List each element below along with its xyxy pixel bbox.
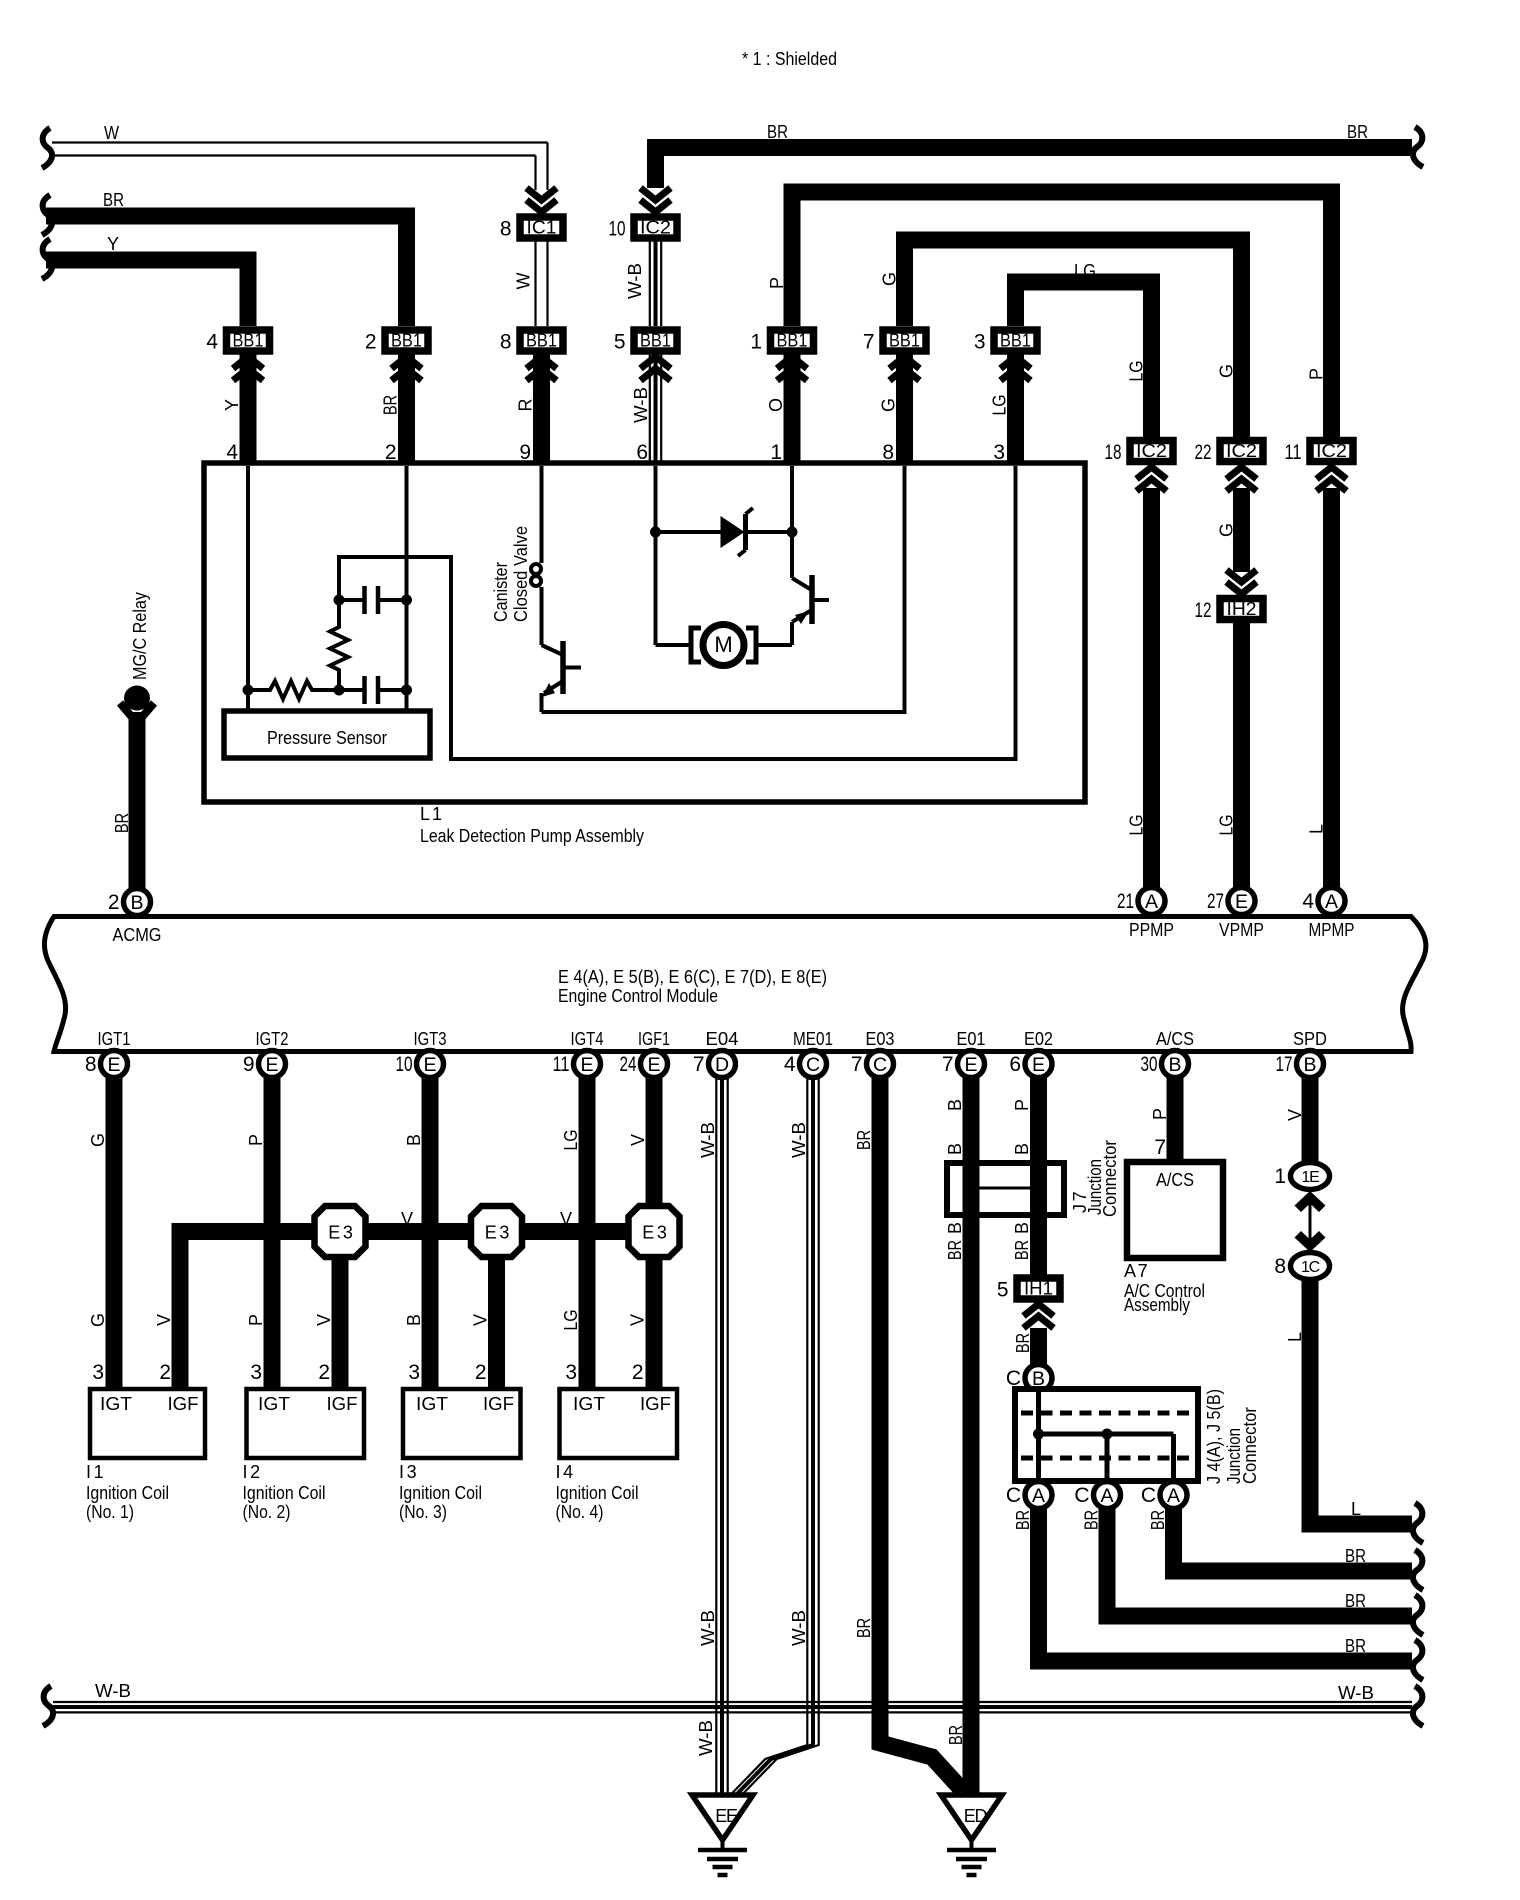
svg-text:Pressure Sensor: Pressure Sensor [267,728,387,748]
svg-text:V: V [401,1209,413,1229]
wire BR from right edge to IC2 pin 10 [1413,127,1423,167]
svg-text:7: 7 [942,1053,954,1076]
svg-text:E03: E03 [866,1029,895,1049]
svg-text:IGF1: IGF1 [638,1029,670,1049]
svg-text:LG: LG [1074,261,1096,281]
svg-text:M: M [714,632,732,657]
wire V from ECM SPD to connector 1E [1302,1077,1319,1162]
connector circle C A 2 [1094,1482,1121,1509]
svg-text:E01: E01 [957,1029,986,1049]
svg-text:Ignition Coil: Ignition Coil [399,1483,482,1503]
svg-text:(No. 3): (No. 3) [399,1502,447,1522]
wire BR E03 to ground ED [880,1077,963,1791]
svg-text:IGF: IGF [640,1394,671,1414]
svg-text:LG: LG [990,395,1010,416]
svg-text:IH1: IH1 [1024,1279,1053,1299]
wire BR from IH1 to J4 connector [1030,1328,1047,1364]
transistor Q1 [542,645,564,655]
svg-text:6: 6 [1009,1053,1021,1076]
svg-text:SPD: SPD [1293,1029,1327,1049]
box Ignition Coil I 4 [560,1389,678,1458]
svg-text:BR: BR [1013,1333,1033,1353]
wire W between IC1 and BB1 pin 8 [534,242,536,327]
svg-text:A/CS: A/CS [1156,1170,1194,1190]
svg-text:C: C [873,1054,887,1076]
svg-text:IGT: IGT [100,1394,132,1414]
svg-text:1: 1 [1274,1165,1286,1188]
wire W (shielded pair) from left edge to IC1 [42,128,52,168]
connector IH1 pin 5 [1017,1278,1060,1299]
capacitor C2 [339,688,365,692]
svg-text:2: 2 [632,1361,644,1384]
connector BB1 pin 3 [1007,355,1024,467]
svg-text:W-B: W-B [698,1122,718,1158]
svg-text:1: 1 [750,331,762,354]
svg-text:R: R [516,399,536,412]
svg-text:IGT: IGT [416,1394,448,1414]
svg-text:C: C [1006,1484,1021,1507]
junction connector J4(A) J5(B) [1015,1389,1198,1481]
junction connector E3 b [471,1206,522,1257]
svg-text:G: G [1217,523,1237,537]
svg-text:E: E [964,1054,977,1076]
svg-text:D: D [715,1054,729,1076]
svg-text:B: B [945,1143,965,1155]
wire BR from J4 to right edge middle [1107,1508,1412,1616]
svg-text:V: V [628,1134,648,1146]
capacitor C1 [339,598,365,602]
svg-text:IC2: IC2 [1226,441,1257,461]
svg-text:E 4(A), E 5(B), E 6(C), E 7(D): E 4(A), E 5(B), E 6(C), E 7(D), E 8(E) [558,967,827,987]
wire P from ECM A/CS to A/C control assembly [1167,1077,1184,1162]
svg-text:Ignition Coil: Ignition Coil [86,1483,169,1503]
svg-text:J 4(A), J 5(B): J 4(A), J 5(B) [1204,1389,1224,1484]
svg-text:V: V [154,1314,174,1326]
svg-text:L 1: L 1 [420,804,442,824]
svg-text:LG: LG [1127,361,1147,382]
svg-text:18: 18 [1105,441,1122,464]
svg-text:Engine Control Module: Engine Control Module [558,986,718,1006]
wire BR from J4 to right edge upper [1174,1508,1413,1571]
svg-text:1C: 1C [1301,1259,1320,1276]
connector IC1 pin 8 [520,217,563,238]
down arrow into IC2 [641,200,671,212]
svg-text:LG: LG [1217,815,1237,836]
svg-text:ED: ED [964,1806,988,1826]
svg-text:7: 7 [693,1053,705,1076]
svg-text:7: 7 [863,331,875,354]
svg-text:BR: BR [112,813,132,833]
svg-text:21: 21 [1117,890,1134,913]
junction [243,685,254,696]
svg-text:P: P [767,277,787,289]
connector circle C A 3 [1160,1482,1187,1509]
svg-text:B: B [404,1314,424,1326]
svg-text:(No. 4): (No. 4) [556,1502,604,1522]
svg-text:LG: LG [561,1130,581,1151]
svg-text:11: 11 [1285,441,1302,464]
svg-text:BR: BR [854,1130,874,1150]
wire G loop from BB1 pin 7 to IC2 pin 22 [905,240,1242,437]
wire BR from J4 to right edge lower [1039,1508,1413,1661]
svg-text:E: E [423,1054,436,1076]
svg-text:L: L [1285,1332,1305,1342]
svg-text:V: V [1285,1109,1305,1121]
svg-text:7: 7 [851,1053,863,1076]
svg-text:IC1: IC1 [527,218,557,238]
svg-text:A: A [1325,891,1338,913]
svg-text:MPMP: MPMP [1309,920,1355,940]
svg-text:BR: BR [1345,1546,1366,1566]
wire V IGF1 from ECM through E3 to coil 4 [646,1077,663,1389]
svg-text:A 7: A 7 [1124,1261,1148,1281]
box A7 A/C Control Assembly [1127,1162,1223,1258]
svg-text:Ignition Coil: Ignition Coil [243,1483,326,1503]
svg-text:E04: E04 [706,1029,739,1049]
svg-text:E: E [1032,1054,1045,1076]
box Pressure Sensor [224,711,430,758]
svg-text:2: 2 [318,1361,330,1384]
wire pin2 inside pump [405,466,409,711]
svg-text:W-B: W-B [789,1122,809,1158]
svg-text:E: E [647,1054,660,1076]
svg-text:BB1: BB1 [777,331,808,351]
wire pin4 inside pump [246,466,250,711]
svg-text:4: 4 [1302,890,1314,913]
svg-text:IGF: IGF [327,1394,358,1414]
box Ignition Coil I 1 [90,1389,205,1458]
down arrow into IH2 [1227,582,1257,594]
svg-text:IC2: IC2 [1136,441,1167,461]
svg-text:2: 2 [159,1361,171,1384]
svg-text:E 3: E 3 [485,1223,510,1243]
wire BR from left edge to connector BB1 pin 2 [42,195,52,235]
svg-text:5: 5 [997,1279,1009,1302]
svg-text:3: 3 [974,331,986,354]
box Engine Control Module band [44,917,1425,1052]
svg-text:BR: BR [1148,1510,1168,1530]
svg-text:B: B [1012,1222,1032,1234]
arrow link between 1E and 1C [1295,1191,1326,1212]
svg-text:22: 22 [1195,441,1212,464]
svg-text:BB1: BB1 [233,331,264,351]
svg-text:A: A [1145,891,1158,913]
svg-text:W-B: W-B [631,387,651,423]
svg-text:P: P [246,1134,266,1146]
svg-text:W-B: W-B [698,1610,718,1646]
svg-text:MG/C Relay: MG/C Relay [130,592,150,680]
svg-text:4: 4 [206,331,218,354]
svg-text:LG: LG [561,1310,581,1331]
wire pump pin1 [790,466,794,532]
connector BB1 pin 8 [533,355,550,467]
box Ignition Coil I 2 [247,1389,365,1458]
svg-text:V: V [628,1314,648,1326]
wire W-B shielded ME01 to ground EE [731,1077,807,1794]
svg-text:B: B [945,1222,965,1234]
wire P loop from BB1 pin 1 to IC2 pin 11 [792,192,1332,437]
junction [334,685,345,696]
box L1 Leak Detection Pump Assembly [204,463,1085,802]
svg-text:27: 27 [1207,890,1224,913]
svg-text:L: L [1307,824,1327,834]
resistor R2 vertical [330,600,348,690]
connector IC2 pin 11 [1310,441,1353,462]
svg-text:O: O [766,398,786,412]
svg-text:I 2: I 2 [243,1462,261,1482]
svg-text:G: G [88,1133,108,1147]
wire pump pin8 bottom run [542,466,905,712]
svg-text:BB1: BB1 [640,331,671,351]
svg-text:BR: BR [945,1240,965,1260]
svg-text:L: L [1351,1499,1361,1519]
svg-text:(No. 1): (No. 1) [86,1502,134,1522]
svg-text:Closed Valve: Closed Valve [511,526,531,622]
svg-text:G: G [1217,364,1237,378]
svg-text:Ignition Coil: Ignition Coil [556,1483,639,1503]
svg-text:2: 2 [365,331,377,354]
svg-text:V: V [314,1314,334,1326]
svg-text:IC2: IC2 [1316,441,1347,461]
wire pump pin6 [654,466,658,645]
wire LG loop from BB1 pin 3 to IC2 pin 18 [1016,282,1152,437]
svg-text:IGT: IGT [573,1394,605,1414]
svg-text:24: 24 [620,1053,637,1076]
svg-text:17: 17 [1276,1053,1293,1076]
svg-text:E 3: E 3 [328,1223,353,1243]
svg-text:BB1: BB1 [889,331,920,351]
svg-text:E: E [1235,891,1248,913]
svg-text:BR: BR [767,122,788,142]
junction connector J7 [947,1163,1064,1215]
junction [401,595,412,606]
svg-text:ME01: ME01 [793,1029,833,1049]
wire LG IGT from ECM to ignition coil [579,1077,596,1389]
svg-text:W-B: W-B [696,1720,716,1756]
svg-text:B: B [1168,1054,1181,1076]
svg-text:ACMG: ACMG [113,925,162,945]
box Ignition Coil I 3 [403,1389,521,1458]
junction connector E3 c [629,1206,680,1257]
connector BB1 pin 4 [240,355,257,467]
svg-text:B: B [130,892,143,914]
svg-text:8: 8 [500,218,512,241]
svg-text:W-B: W-B [1338,1683,1374,1703]
svg-text:W-B: W-B [625,263,645,299]
svg-text:G: G [88,1313,108,1327]
ECM pin 27 E VPMP [1228,888,1255,915]
svg-text:BR: BR [1012,1240,1032,1260]
wire V bus linking IGF pins via E3 junctions [180,1232,654,1390]
down arrow into IC1 [527,200,557,212]
connector IC2 pin 22 [1220,441,1263,462]
svg-text:PPMP: PPMP [1129,920,1174,940]
connector IC2 pin 18 [1130,441,1173,462]
svg-text:3: 3 [408,1361,420,1384]
junction connector E3 a [315,1206,366,1257]
wire pin3 path inside pump [339,466,1016,759]
svg-text:I 4: I 4 [556,1462,574,1482]
svg-text:BR: BR [1013,1510,1033,1530]
svg-text:G: G [880,272,900,286]
svg-text:11: 11 [553,1053,570,1076]
connector circle C A 1 [1025,1482,1052,1509]
wire V riser to coil 3 IGF [488,1256,505,1389]
svg-text:IGF: IGF [483,1394,514,1414]
svg-text:C: C [1074,1484,1089,1507]
svg-text:G: G [879,398,899,412]
ground ED [941,1795,1002,1840]
svg-text:3: 3 [565,1361,577,1384]
svg-text:Canister: Canister [491,562,511,622]
svg-text:BR: BR [1082,1510,1102,1530]
connector IH2 pin 12 [1220,599,1263,620]
svg-text:A: A [1032,1485,1045,1507]
wire L from IC2-11 to ECM MPMP [1323,488,1340,888]
connector BB1 pin 5 [649,355,651,467]
ECM pin 2 B ACMG [124,889,151,916]
svg-text:W: W [104,123,119,143]
svg-text:B: B [404,1134,424,1146]
svg-text:EE: EE [715,1806,738,1826]
svg-text:IH2: IH2 [1227,599,1257,619]
svg-text:2: 2 [108,891,120,914]
svg-text:A/CS: A/CS [1156,1029,1194,1049]
svg-text:IGT4: IGT4 [571,1029,604,1049]
svg-text:BR: BR [103,190,124,210]
wire V riser to coil 2 IGF [332,1256,349,1389]
wire W-B shielded E04 to ground EE [715,1077,717,1795]
svg-text:BB1: BB1 [391,331,422,351]
wire G from IC2-22 to IH2 [1233,488,1250,572]
svg-text:7: 7 [1154,1136,1166,1159]
svg-text:E02: E02 [1024,1029,1053,1049]
junction [787,527,798,538]
connector 1C pin 8 [1291,1253,1330,1280]
svg-text:10: 10 [609,218,626,241]
svg-text:BR: BR [1347,122,1368,142]
svg-text:1E: 1E [1301,1169,1319,1186]
wire W-B shielded between IC2 and BB1 pin 5 [649,242,651,327]
junction [401,685,412,696]
svg-text:9: 9 [243,1053,255,1076]
svg-text:3: 3 [92,1361,104,1384]
svg-text:BB1: BB1 [526,331,557,351]
svg-text:W: W [514,273,534,290]
wire P E02 to junction J7 and IH1 [1030,1077,1047,1275]
svg-text:E 3: E 3 [642,1223,667,1243]
resistor R1 horizontal [248,681,339,699]
ground EE [692,1795,753,1840]
svg-text:IC2: IC2 [640,218,671,238]
svg-text:IGT2: IGT2 [256,1029,289,1049]
svg-text:P: P [1012,1099,1032,1111]
wire L from 1C to right edge [1310,1280,1412,1524]
svg-text:8: 8 [85,1053,97,1076]
connector BB1 pin 2 [398,355,415,467]
ECM pin 4 A MPMP [1318,888,1345,915]
svg-text:5: 5 [614,331,626,354]
svg-text:IGT: IGT [258,1394,290,1414]
svg-text:V: V [560,1209,572,1229]
svg-text:4: 4 [784,1053,796,1076]
svg-text:E: E [265,1054,278,1076]
junction [650,527,661,538]
svg-text:* 1 : Shielded: * 1 : Shielded [742,49,837,69]
svg-text:BR: BR [1345,1636,1366,1656]
svg-text:IGF: IGF [168,1394,199,1414]
svg-text:A: A [1167,1485,1180,1507]
svg-text:Assembly: Assembly [1124,1295,1190,1315]
svg-text:3: 3 [250,1361,262,1384]
wire P IGT from ECM to ignition coil [264,1077,281,1389]
svg-text:IGT1: IGT1 [98,1029,131,1049]
svg-text:VPMP: VPMP [1219,920,1264,940]
svg-text:BR: BR [854,1618,874,1638]
wire LG from IH2 to ECM VPMP [1233,622,1250,888]
svg-text:Leak Detection Pump Assembly: Leak Detection Pump Assembly [420,826,644,846]
ECM pin 21 A PPMP [1138,888,1165,915]
svg-text:I 3: I 3 [399,1462,417,1482]
svg-text:8: 8 [500,331,512,354]
svg-text:IGT3: IGT3 [414,1029,447,1049]
svg-text:C: C [1141,1484,1156,1507]
wire B E01 to ground ED [963,1077,980,1795]
svg-text:B: B [1012,1143,1032,1155]
svg-text:LG: LG [1127,815,1147,836]
svg-text:W-B: W-B [95,1681,131,1701]
svg-text:BR: BR [1345,1591,1366,1611]
svg-text:I 1: I 1 [86,1462,104,1482]
svg-text:Y: Y [107,234,119,254]
svg-text:P: P [1150,1108,1170,1120]
svg-text:Y: Y [222,399,242,411]
svg-text:V: V [471,1314,491,1326]
svg-text:E: E [107,1054,120,1076]
wire LG from IC2-18 to ECM PPMP [1143,488,1160,888]
zener diode D1 [656,530,721,534]
svg-text:BR: BR [381,395,401,415]
svg-text:BB1: BB1 [1000,331,1031,351]
connector circle C B [1025,1365,1052,1392]
wire B IGT from ECM to ignition coil [422,1077,439,1389]
svg-text:2: 2 [475,1361,487,1384]
svg-text:P: P [246,1314,266,1326]
connector IC2 pin 10 [634,217,677,238]
wire G IGT from ECM to ignition coil [106,1077,123,1389]
svg-text:(No. 2): (No. 2) [243,1502,291,1522]
connector BB1 pin 7 [896,355,913,467]
svg-text:30: 30 [1141,1053,1158,1076]
svg-text:B: B [1303,1054,1316,1076]
junction [334,595,345,606]
wire Y from left edge to connector BB1 pin 4 [42,239,52,279]
svg-text:10: 10 [396,1053,413,1076]
connector BB1 pin 1 [784,355,801,467]
svg-text:12: 12 [1195,599,1212,622]
svg-text:W-B: W-B [789,1610,809,1646]
svg-text:B: B [945,1099,965,1111]
svg-text:Connector: Connector [1100,1140,1120,1217]
wire W-B shielded ground bus [43,1686,53,1726]
svg-text:8: 8 [1274,1255,1286,1278]
svg-text:A: A [1100,1485,1113,1507]
svg-text:P: P [1307,368,1327,380]
svg-text:E: E [580,1054,593,1076]
motor M pump [691,628,701,662]
connector 1E pin 1 [1291,1163,1330,1190]
svg-text:C: C [806,1054,820,1076]
